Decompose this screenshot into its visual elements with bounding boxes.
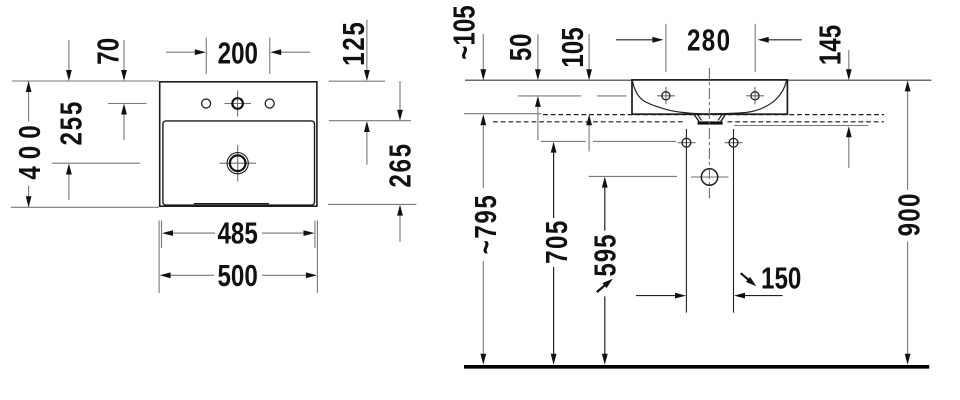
left fixing hole (front view) crosshair [657,95,675,97]
svg-text:70: 70 [91,38,126,65]
dimension 150 leader arrow [741,273,749,280]
left bolt hole circle [678,142,696,144]
dimension 265 arrows [399,81,401,111]
washbasin bowl (inner rounded rect) [163,121,315,205]
dimension ~105 top arrow [482,34,484,71]
dimension 125 arrows [366,20,368,71]
svg-text:50: 50 [503,33,538,61]
svg-text:265: 265 [383,142,418,187]
extension line: 50 level [518,95,581,97]
bowl bottom inner edge [194,203,269,205]
dimension 200 arrows [166,51,196,53]
dimension 705 line [553,152,555,218]
svg-text:705: 705 [539,219,574,264]
svg-text:900: 900 [892,192,927,236]
extension line: bowl bottom level, right [328,203,416,205]
extension line: basin top level, right of basin [329,80,386,82]
hidden line: lower level (dashed) [493,121,685,123]
svg-text:255: 255 [54,100,89,146]
dimension 105 arrows [588,34,590,71]
svg-text:280: 280 [687,23,732,58]
right bolt hole circle [725,142,743,144]
washbasin body (front view) [632,80,787,114]
drain inner circle [230,155,246,171]
dimension 280 arrows [616,39,654,41]
svg-text:125: 125 [336,20,371,65]
dimension 145 arrows [848,50,850,71]
hidden line: basin bottom level (dashed) [543,114,884,116]
tap hole [232,98,243,109]
center line (dash-dot) [708,68,710,199]
dimension 485 line and arrows [172,232,215,234]
tap hole crosshair [225,103,252,105]
dimension 200 ticks [205,38,207,75]
left fixing hole (top view) [202,99,211,108]
dimension 70 arrows [123,40,125,71]
dimension 595 line [604,187,606,231]
dimension 400 line [28,81,30,122]
extension line: basin bottom level, left [11,206,159,208]
extension line: tap connection level (595 ref) [589,175,677,177]
dimension 255 arrows [68,40,70,71]
svg-text:400: 400 [12,118,47,179]
svg-text:145: 145 [812,25,847,65]
extension line: basin top level, left of basin [12,80,159,82]
floor line [464,365,929,369]
extension line: bowl top level, right [329,120,411,122]
dimension 150 arrows [636,295,676,297]
dimension 280 ticks [665,24,667,72]
dimension 595 leader arrow [597,286,605,293]
washbasin outer rim (top view) [160,82,317,206]
dimension 500 line and arrows [170,274,214,276]
extension line: trap bottom level (145 ref) [734,125,868,127]
right fixing hole (front view) crosshair [746,95,764,97]
right fixing hole (top view) [265,99,274,108]
svg-text:500: 500 [217,258,257,293]
drain outer circle [227,153,248,174]
bowl inner profile curve [632,80,786,114]
wall mounting top line [465,79,931,81]
extension line: basin bottom level, left [464,113,542,115]
dimension 50 arrows [537,34,539,71]
svg-text:200: 200 [218,36,258,71]
svg-text:~105: ~105 [447,5,482,59]
svg-text:485: 485 [217,216,257,251]
drain connection circle [691,176,729,178]
dimension ~795 line [482,126,484,188]
drain trap outline [694,115,699,122]
svg-text:150: 150 [761,261,801,296]
drain crosshair [220,162,257,164]
svg-text:595: 595 [587,233,622,276]
dimension 485 ticks [161,221,163,249]
extension line: fixing bolt level (705 ref) [541,140,586,142]
svg-text:105: 105 [555,27,590,67]
extension line: drain axis, left [52,162,140,164]
svg-text:~795: ~795 [468,194,503,255]
dimension 500 ticks [158,221,160,294]
dimension 900 line [907,91,909,190]
drain valve bar [698,121,723,124]
extension line: tap hole axis, left [108,103,147,105]
